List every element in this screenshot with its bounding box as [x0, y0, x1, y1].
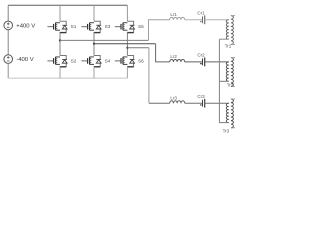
svg-text:S3: S3 — [105, 24, 111, 29]
capacitor Cr1 — [203, 15, 205, 24]
svg-text:Tr1: Tr1 — [225, 44, 232, 49]
node leg1 midpoint junction — [59, 39, 61, 41]
MOSFET switch S2 — [47, 56, 67, 67]
wire bottom pin leg 2 — [93, 67, 95, 78]
wire bottom pin leg 1 — [59, 67, 61, 78]
svg-text:S4: S4 — [105, 58, 111, 63]
wire top pin leg 3 — [126, 5, 128, 21]
DC source V2 -400 V — [4, 55, 13, 64]
transformer Tr1 primary winding — [226, 20, 228, 39]
node leg2 midpoint junction — [93, 43, 95, 45]
svg-text:S5: S5 — [138, 24, 144, 29]
transformer Tr2 primary winding — [226, 62, 228, 81]
wire Lr3 to Cr3 — [185, 102, 203, 104]
transformer Tr1 secondary winding — [231, 16, 234, 45]
svg-text:S1: S1 — [71, 24, 77, 29]
wire leg3 midpoint tap — [127, 47, 148, 49]
wire source to bottom rail — [7, 63, 9, 78]
wire Tr1 secondary stubs — [231, 16, 235, 45]
svg-text:+400 V: +400 V — [16, 24, 35, 30]
wire dropper bottom to Lr3 — [149, 102, 170, 104]
wire Tr3 secondary stubs — [231, 99, 235, 128]
wire Lr2 to Cr2 — [185, 61, 203, 63]
wire star-point bus — [218, 39, 220, 122]
svg-text:Cr1: Cr1 — [197, 11, 205, 16]
bottom DC rail — [8, 77, 127, 79]
svg-text:Cr2: Cr2 — [197, 53, 205, 58]
svg-text:Lr3: Lr3 — [170, 96, 177, 101]
wire Tr3 primary return — [219, 122, 228, 124]
inductor Lr2 — [170, 60, 185, 62]
wire top pin leg 2 — [93, 5, 95, 21]
wire Cr2 to Tr2 — [205, 61, 229, 63]
MOSFET switch S4 — [81, 56, 101, 67]
transformer Tr3 secondary winding — [231, 99, 234, 128]
MOSFET switch S3 — [81, 21, 101, 32]
wire bottom pin leg 3 — [126, 67, 128, 78]
wire Tr2 secondary stubs — [231, 58, 235, 87]
transformer Tr2 secondary winding — [231, 58, 234, 87]
wire riser to branch 1 — [149, 20, 170, 41]
wire Lr1 to Cr1 — [185, 19, 203, 21]
inductor Lr1 — [170, 17, 185, 19]
svg-text:S6: S6 — [138, 58, 144, 63]
wire midpoint leg 3 — [126, 33, 128, 56]
svg-text:Lr1: Lr1 — [170, 12, 177, 17]
wire midpoint leg 2 — [93, 33, 95, 56]
MOSFET switch S1 — [47, 21, 67, 32]
inductor Lr3 — [170, 101, 185, 103]
svg-text:Tr3: Tr3 — [223, 128, 230, 133]
svg-text:-400 V: -400 V — [16, 57, 33, 63]
svg-text:S2: S2 — [71, 58, 77, 63]
wire Tr1 primary return — [219, 38, 228, 40]
wire midpoint leg 1 — [59, 33, 61, 56]
wire Tr2 primary return — [219, 80, 228, 82]
svg-text:Cr3: Cr3 — [197, 94, 205, 99]
left source column wire top — [7, 5, 9, 21]
wire Cr3 to Tr3 — [205, 102, 229, 104]
node leg3 midpoint junction — [126, 47, 128, 49]
top DC rail — [8, 4, 127, 6]
svg-text:Tr2: Tr2 — [227, 83, 234, 88]
MOSFET switch S6 — [115, 56, 135, 67]
DC source V1 +400 V — [4, 21, 13, 30]
wire Cr1 to Tr1 — [205, 19, 229, 21]
wire leg2 midpoint tap — [94, 43, 156, 45]
MOSFET switch S5 — [115, 21, 135, 32]
capacitor Cr3 — [203, 99, 205, 108]
wire leg1 midpoint tap — [60, 39, 149, 41]
transformer Tr3 primary winding — [226, 103, 228, 122]
svg-text:Lr2: Lr2 — [170, 54, 177, 59]
wire top pin leg 1 — [59, 5, 61, 21]
wire between sources — [7, 30, 9, 55]
capacitor Cr2 — [203, 58, 205, 67]
wire dropper to branch 2 — [156, 44, 170, 62]
wire dropper to branch 3 — [148, 48, 150, 103]
